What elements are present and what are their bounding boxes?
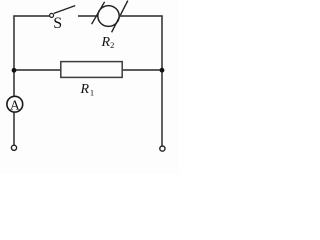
wire top left to switch (13, 15, 49, 17)
wire middle left (14, 69, 61, 71)
svg-text:S: S (53, 15, 62, 32)
node left junction (12, 68, 17, 73)
svg-text:R2: R2 (101, 35, 115, 50)
wire middle right (122, 69, 162, 71)
left terminal (11, 145, 16, 150)
wire R2 to top right (120, 15, 163, 17)
variable resistor R2 (92, 1, 128, 33)
right terminal (160, 146, 165, 151)
wire right vertical (161, 16, 163, 146)
node right junction (160, 68, 165, 73)
svg-text:R1: R1 (80, 82, 95, 97)
switch S (50, 6, 76, 18)
ammeter A (7, 96, 23, 112)
wire switch to R2 (78, 15, 99, 17)
svg-text:A: A (10, 97, 20, 112)
resistor R1 (61, 62, 122, 78)
wire left vertical (13, 16, 15, 145)
